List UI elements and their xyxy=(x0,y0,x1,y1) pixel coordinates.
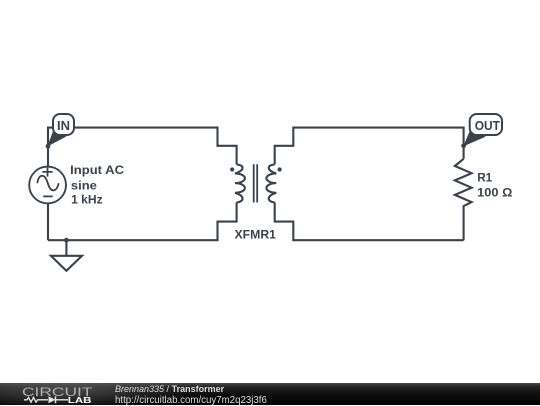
svg-text:IN: IN xyxy=(57,118,70,133)
svg-text:sine: sine xyxy=(71,179,97,193)
svg-text:1 kHz: 1 kHz xyxy=(71,192,103,206)
svg-text:R1: R1 xyxy=(477,171,492,185)
svg-text:100 Ω: 100 Ω xyxy=(477,186,512,200)
svg-text:XFMR1: XFMR1 xyxy=(235,228,277,242)
svg-text:OUT: OUT xyxy=(475,118,500,133)
svg-text:Input AC: Input AC xyxy=(70,163,124,177)
svg-text:LAB: LAB xyxy=(68,395,92,405)
